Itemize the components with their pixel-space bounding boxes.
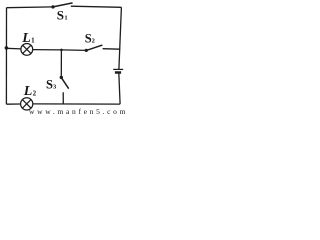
svg-text:S1: S1 [57, 8, 68, 23]
switch S1 blade (open) [53, 3, 73, 7]
lamp L2 (circle with cross) [21, 98, 33, 110]
wire: top side, left segment to switch S1 [7, 6, 54, 9]
wire: S3 lower contact stub [62, 92, 64, 104]
wire: lamp L1 to node J [33, 49, 62, 51]
wire: right rail upper (corner down to battery) [119, 7, 122, 69]
wire: node J to switch S2 [61, 49, 86, 52]
switch S3 pivot dot [60, 76, 63, 79]
lamp L1 (circle with cross) [21, 44, 33, 56]
battery negative plate (short thick) [115, 71, 121, 74]
switch S2 pivot dot [85, 49, 88, 52]
wire: node A to lamp L1 [6, 47, 21, 50]
wire: bottom side, left segment to lamp L2 [6, 103, 20, 105]
svg-text:www.manfen5.com: www.manfen5.com [29, 107, 126, 115]
wire: left rail [5, 8, 7, 105]
wire: right rail lower (battery down to bottom-right corner) [119, 73, 120, 105]
svg-text:L2: L2 [23, 84, 37, 99]
junction dot on left rail (node A) [5, 46, 9, 50]
svg-text:S3: S3 [46, 78, 57, 92]
switch S3 blade (open) [62, 78, 69, 89]
svg-text:S2: S2 [85, 32, 95, 46]
svg-text:L1: L1 [21, 31, 35, 46]
junction dot (node J) [60, 49, 63, 52]
wire: node J down to switch S3 [60, 50, 62, 76]
battery positive plate (long thin) [113, 68, 123, 70]
wire: top side, right segment from S1 to top-right corner [71, 6, 122, 7]
wire: bottom side, right segment to bottom-right corner [33, 103, 120, 105]
switch S1 pivot dot [51, 5, 54, 8]
switch S2 blade (open) [86, 45, 102, 50]
wire: S2 fixed contact to right rail [103, 48, 121, 51]
